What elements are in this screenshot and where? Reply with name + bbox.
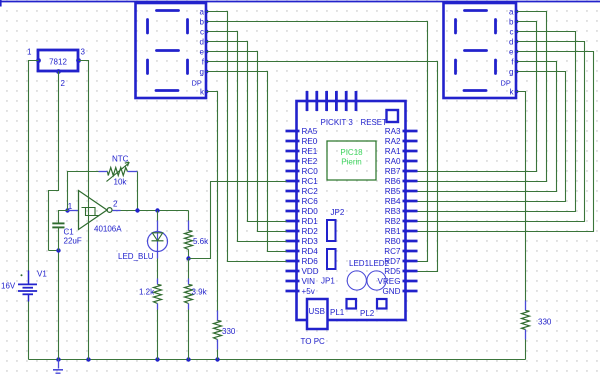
DS2 segment D bar [464, 89, 486, 92]
LED_BLU anode wire [157, 211, 159, 221]
DS2 segment E bar [454, 60, 457, 74]
svg-text:RB7: RB7 [385, 167, 401, 176]
DS1 segment F bar [146, 20, 149, 34]
wire 7812 pin1 to battery + (net VIN) [29, 61, 39, 271]
svg-text:RESET: RESET [361, 118, 387, 127]
U1 PIC18 chip box [327, 141, 376, 180]
svg-text:VREG: VREG [378, 277, 401, 286]
DS1 segment B bar [186, 20, 189, 34]
svg-text:RB5: RB5 [385, 187, 401, 196]
svg-text:5.6k: 5.6k [193, 237, 209, 246]
svg-text:10k: 10k [114, 178, 128, 187]
svg-text:PICKIT 3: PICKIT 3 [321, 118, 354, 127]
svg-text:RB0: RB0 [385, 237, 401, 246]
wire DS2 k to R5 330 [517, 92, 526, 301]
svg-text:PL1: PL1 [330, 308, 345, 317]
wire divider mid down to 3.9k [188, 259, 190, 279]
U1 USB connector [307, 299, 328, 329]
ground symbol [58, 360, 60, 369]
svg-text:Pierin: Pierin [341, 158, 361, 167]
wire 1.2k to rail [157, 310, 159, 360]
svg-text:RA2: RA2 [385, 137, 401, 146]
DS1 segment A bar [157, 9, 179, 12]
svg-text:a: a [509, 8, 514, 17]
svg-text:GND: GND [383, 287, 401, 296]
svg-text:330: 330 [538, 318, 552, 327]
wire node2 down to 5.6k [188, 211, 190, 221]
DS2 segment C bar [494, 60, 497, 74]
svg-text:VDD: VDD [302, 267, 319, 276]
svg-text:16V: 16V [1, 282, 16, 291]
svg-text:V1: V1 [37, 270, 47, 279]
DS1 pin dots [205, 10, 209, 14]
wire DS2 c to RB3 [418, 32, 576, 212]
svg-text:2: 2 [61, 79, 66, 88]
DS2 segment B bar [494, 20, 497, 34]
svg-text:3: 3 [81, 48, 86, 57]
wire 7812 pin3 down to rail [79, 61, 89, 360]
svg-text:RB1: RB1 [385, 227, 401, 236]
NTC thermistor 10k [108, 168, 128, 176]
DS1 segment E bar [146, 60, 149, 74]
svg-text:7812: 7812 [49, 58, 67, 67]
wire DS2 d to RB2 [418, 42, 585, 222]
wire DS1 g to RD4 [207, 72, 287, 252]
svg-text:RD1: RD1 [302, 217, 319, 226]
svg-text:2: 2 [113, 200, 118, 209]
svg-text:PL2: PL2 [360, 309, 375, 318]
wire DS1 c to RD3 [207, 32, 287, 242]
regulator U2 7812 [38, 50, 78, 71]
resistor R1 5.6k [185, 231, 193, 250]
svg-text:RC1: RC1 [302, 177, 319, 186]
resistor R4 330 [214, 321, 222, 340]
svg-text:RB2: RB2 [385, 217, 401, 226]
svg-text:1: 1 [27, 48, 32, 57]
wire DS1 f to RD5 [207, 62, 438, 272]
svg-text:d: d [509, 38, 513, 47]
inverter U3 40106A [79, 191, 108, 230]
svg-text:RA3: RA3 [385, 127, 401, 136]
svg-text:g: g [200, 68, 204, 77]
svg-text:RA1: RA1 [385, 147, 401, 156]
ground rail (net GND) [29, 359, 526, 361]
DS1 segment C bar [186, 60, 189, 74]
U1 right pin stubs [403, 130, 418, 133]
svg-text:40106A: 40106A [94, 225, 122, 234]
svg-text:RA5: RA5 [302, 127, 318, 136]
svg-text:DP: DP [501, 79, 511, 88]
7-segment display DS2 body [444, 3, 517, 98]
svg-text:VIN: VIN [302, 277, 316, 286]
wire DS2 f to RB5 [418, 62, 557, 192]
svg-text:C1: C1 [64, 228, 75, 237]
resistor R2 1.2k [154, 285, 162, 304]
svg-text:NTC: NTC [112, 155, 129, 164]
svg-text:RC6: RC6 [302, 197, 319, 206]
svg-text:330: 330 [222, 327, 236, 336]
DS2 segment A bar [465, 9, 487, 12]
svg-text:g: g [509, 68, 513, 77]
DS2 segment G bar [465, 49, 487, 52]
wire DS1 b to RD7 [207, 22, 428, 262]
wire DS2 b to RB7 [418, 22, 537, 172]
DS1 segment G bar [157, 49, 179, 52]
svg-text:22uF: 22uF [64, 237, 82, 246]
wire battery - to ground rail [28, 302, 30, 360]
svg-text:RB3: RB3 [385, 207, 401, 216]
resistor R5 330 [522, 311, 530, 330]
wire NTC to node2 [137, 172, 139, 211]
svg-text:RC2: RC2 [302, 187, 319, 196]
svg-text:JP1: JP1 [321, 277, 335, 286]
svg-text:RD4: RD4 [302, 247, 319, 256]
svg-text:a: a [200, 8, 205, 17]
U1 PL2 pad [377, 299, 387, 309]
wire DS1 k to R4 330 [207, 92, 218, 311]
svg-text:RA0: RA0 [385, 157, 401, 166]
svg-text:RE2: RE2 [302, 157, 318, 166]
U1 top header pins [306, 91, 309, 111]
svg-text:RD5: RD5 [384, 267, 401, 276]
svg-text:3.9k: 3.9k [192, 288, 208, 297]
svg-text:1: 1 [68, 202, 73, 211]
svg-text:DP: DP [192, 79, 202, 88]
wire R4 330 to rail [217, 340, 219, 350]
wire node1 to inverter input [68, 210, 79, 212]
svg-text:1.2k: 1.2k [139, 288, 155, 297]
svg-text:PIC18: PIC18 [340, 148, 363, 157]
svg-text:+5v: +5v [302, 287, 316, 296]
DS2 pin dots [515, 10, 519, 14]
wire LED cathode to R 1.2k [157, 251, 159, 258]
node divider mid [186, 256, 190, 260]
7-segment display DS1 body [136, 3, 207, 98]
LED D1 LED_BLU [148, 232, 168, 252]
DS2 segment F bar [454, 20, 457, 34]
svg-text:e: e [200, 48, 205, 57]
wire DS2 e to RB1 [418, 52, 594, 232]
DS1 segment D bar [156, 89, 178, 92]
svg-text:b: b [509, 18, 514, 27]
svg-text:LED_BLU: LED_BLU [118, 252, 154, 261]
svg-text:USB: USB [309, 307, 325, 316]
wire DS1 e to RD2 [207, 52, 287, 232]
svg-text:JP2: JP2 [331, 208, 345, 217]
svg-text:RE0: RE0 [302, 137, 318, 146]
svg-text:c: c [200, 28, 204, 37]
wire C1 bottom node to rail [49, 251, 59, 360]
svg-text:RB6: RB6 [385, 177, 401, 186]
svg-text:RD2: RD2 [302, 227, 319, 236]
wire R5 330 down to rail [525, 330, 527, 340]
wire node2: inverter output across to 5.6k [113, 210, 121, 212]
U1 left pin stubs [286, 130, 300, 133]
wire 3.9k to rail [188, 310, 190, 360]
svg-text:RD0: RD0 [302, 207, 319, 216]
svg-text:d: d [200, 38, 204, 47]
svg-text:RD3: RD3 [302, 237, 319, 246]
resistor R3 3.9k [185, 285, 193, 304]
wire DS2 g to RB4 [418, 72, 566, 202]
svg-text:c: c [510, 28, 514, 37]
battery V1 16V [28, 271, 30, 285]
svg-text:b: b [200, 18, 205, 27]
wire divider mid to PIC RC1 [189, 182, 287, 259]
wire DS2 a to RB6 [418, 12, 547, 182]
svg-text:RC0: RC0 [302, 167, 319, 176]
wire 7812 pin2 (gnd, jogs around C1) [49, 72, 59, 251]
svg-text:RE1: RE1 [302, 147, 318, 156]
U1 PL1 pad [347, 299, 357, 309]
PIC board U1 (PICKIT 3 / Pinguino) outline [297, 101, 406, 320]
svg-text:RB4: RB4 [385, 197, 401, 206]
wire DS1 a to RD6 [207, 12, 287, 262]
svg-text:RC7: RC7 [384, 247, 401, 256]
svg-text:e: e [509, 48, 514, 57]
capacitor C1 22uF [59, 211, 68, 224]
svg-text:RD6: RD6 [302, 257, 319, 266]
node 1 (inverter input) [65, 208, 69, 212]
svg-text:TO PC: TO PC [301, 337, 326, 346]
NTC arrow [107, 163, 130, 182]
svg-text:LED1LED2: LED1LED2 [349, 259, 390, 268]
wire node1 up to NTC [68, 172, 99, 211]
wire DS1 d to RD1 [207, 42, 287, 222]
